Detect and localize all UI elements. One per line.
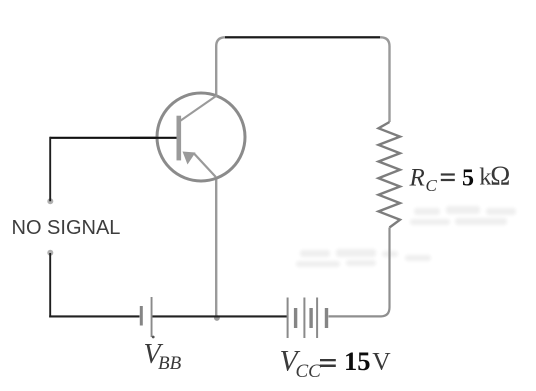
svg-text:15: 15: [344, 346, 371, 376]
svg-text:R: R: [409, 165, 425, 192]
svg-text:CC: CC: [296, 361, 322, 382]
svg-text:NO SIGNAL: NO SIGNAL: [12, 217, 121, 239]
svg-text:C: C: [426, 176, 438, 195]
svg-text:BB: BB: [158, 353, 182, 374]
svg-text:5: 5: [462, 166, 474, 192]
svg-text:V: V: [372, 347, 391, 376]
svg-text:Ω: Ω: [490, 161, 510, 191]
